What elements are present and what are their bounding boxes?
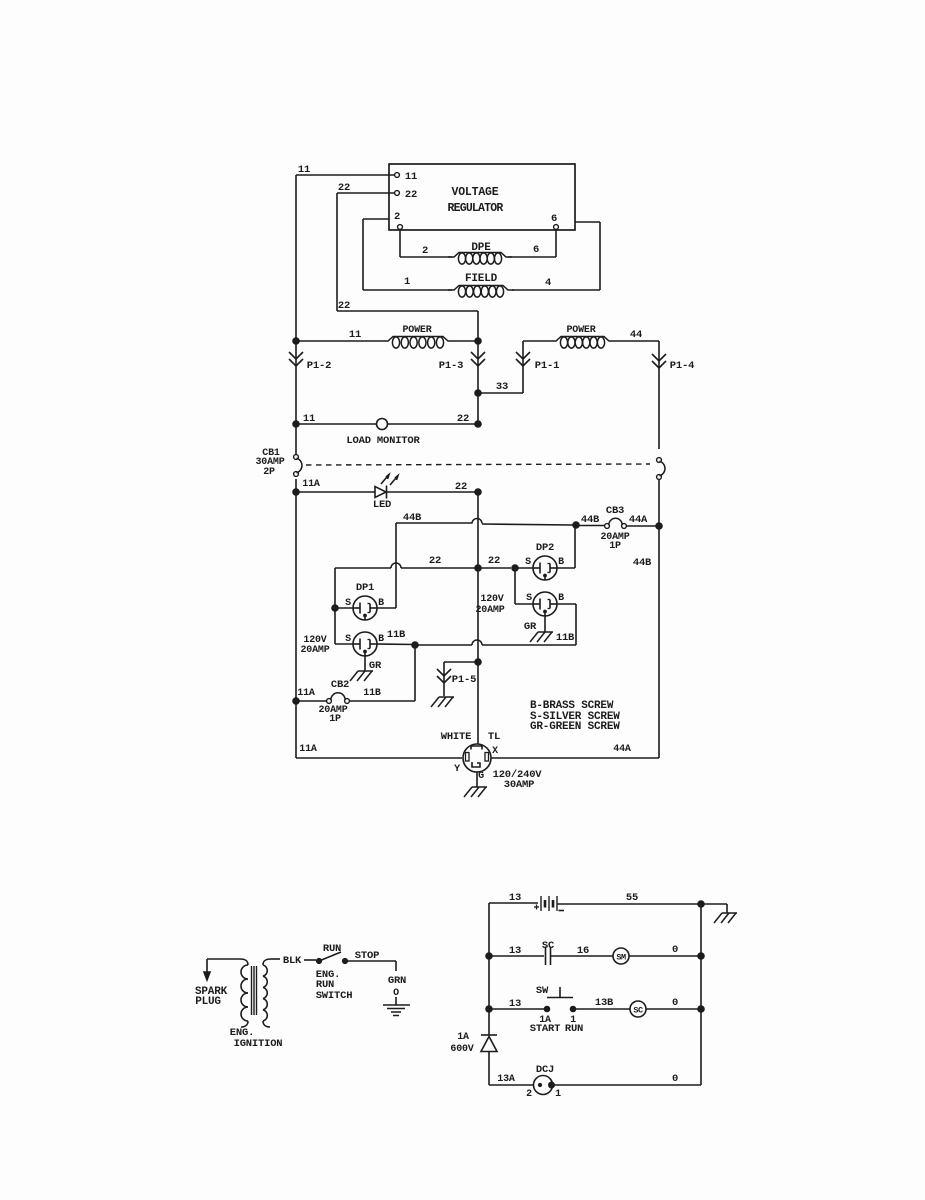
wire 22 row DP section <box>335 567 391 569</box>
engine run switch pivot <box>316 958 321 963</box>
wire 55 to right bus <box>557 903 701 905</box>
svg-text:GR: GR <box>524 621 537 633</box>
wire to spark plug <box>207 958 240 960</box>
svg-text:11B: 11B <box>387 629 406 641</box>
wire 6 from DPE to terminal 6 <box>508 256 556 258</box>
svg-text:WHITE: WHITE <box>441 731 472 743</box>
svg-text:4: 4 <box>545 277 551 289</box>
svg-text:LOAD MONITOR: LOAD MONITOR <box>346 435 420 447</box>
svg-text:11: 11 <box>303 413 315 425</box>
svg-text:11B: 11B <box>363 688 381 699</box>
svg-text:SC: SC <box>542 940 555 952</box>
svg-text:SW: SW <box>536 985 549 997</box>
node 11B junction <box>412 642 419 649</box>
wire DP2 S column <box>514 568 516 604</box>
receptacle DP1 lower <box>353 632 377 656</box>
svg-text:55: 55 <box>626 892 638 904</box>
svg-text:0: 0 <box>672 1073 678 1085</box>
battery BT1 <box>540 896 542 911</box>
terminal 2 of voltage regulator <box>398 225 403 230</box>
ground below TL <box>476 772 478 787</box>
node right bus row2 <box>698 953 705 960</box>
svg-text:IGNITION: IGNITION <box>234 1038 283 1050</box>
node battery right <box>698 901 705 908</box>
svg-text:33: 33 <box>496 381 508 393</box>
svg-text:P1-3: P1-3 <box>439 360 463 372</box>
svg-text:SC: SC <box>633 1006 643 1016</box>
svg-text:PLUG: PLUG <box>195 996 221 1008</box>
terminal 22 of voltage regulator <box>395 191 400 196</box>
svg-text:SM: SM <box>616 953 626 963</box>
svg-text:0: 0 <box>672 997 678 1009</box>
svg-text:13: 13 <box>509 945 521 957</box>
wire GRN to earth <box>395 997 397 1005</box>
connector pin P1-2 <box>289 352 303 359</box>
svg-text:0: 0 <box>672 944 678 956</box>
svg-text:6: 6 <box>551 213 557 225</box>
circuit breaker CB2 <box>296 700 327 702</box>
node CB2 left bus <box>293 698 300 705</box>
svg-text:S: S <box>345 598 351 609</box>
terminal 11 of voltage regulator <box>395 173 400 178</box>
LED D1 <box>375 487 386 498</box>
svg-text:TL: TL <box>488 731 500 743</box>
svg-text:22: 22 <box>405 189 417 201</box>
wire left bus to bottom row <box>295 492 297 758</box>
wire 22 to DP2 <box>478 567 511 569</box>
svg-text:P1-1: P1-1 <box>535 360 559 372</box>
node 44A right bus <box>656 523 663 530</box>
right bus start circuit <box>700 904 702 1085</box>
wire DP1 upper B <box>377 607 396 609</box>
earth ground GRN <box>383 1004 410 1006</box>
svg-text:11A: 11A <box>299 744 317 755</box>
wire right bus 44B down <box>658 526 660 758</box>
svg-text:22: 22 <box>457 413 469 425</box>
wire left bus CB1 to LED row <box>295 479 297 492</box>
wire DP2 upper B to 44B <box>557 567 575 569</box>
wire 33 <box>475 390 482 397</box>
spark plug arrow <box>204 972 210 980</box>
node right bus row3 <box>698 1006 705 1013</box>
svg-text:20AMP: 20AMP <box>475 605 504 616</box>
node 11A LED row <box>293 489 300 496</box>
wire DCJ to right bus <box>553 1084 702 1086</box>
svg-text:22: 22 <box>338 182 350 194</box>
svg-text:S: S <box>525 557 531 568</box>
connector pin P1-5 <box>444 661 478 663</box>
wire 44B drop to DP1 <box>395 523 397 608</box>
node 13 row3 <box>486 1006 493 1013</box>
wire S-column DP1 <box>334 568 336 644</box>
svg-text:CB3: CB3 <box>606 505 624 517</box>
svg-text:GR-GREEN SCREW: GR-GREEN SCREW <box>530 721 620 733</box>
node DP2-B on 44B wire <box>573 522 580 529</box>
svg-text:LED: LED <box>373 499 391 511</box>
svg-text:P1-4: P1-4 <box>670 360 694 372</box>
node P1-5 junction <box>475 659 482 666</box>
svg-text:P1-2: P1-2 <box>307 360 331 372</box>
svg-text:44: 44 <box>630 329 642 341</box>
receptacle DP2 upper <box>533 556 557 580</box>
node 22 center DP row <box>475 565 482 572</box>
svg-text:RUN: RUN <box>323 943 341 955</box>
wire STOP to GRN ground <box>345 960 396 962</box>
svg-text:13: 13 <box>509 998 521 1010</box>
load monitor <box>293 421 300 428</box>
node 13 row2 <box>486 953 493 960</box>
transformer T1 core <box>251 966 253 1015</box>
svg-text:1: 1 <box>404 276 410 288</box>
wire from terminal 2 to DPE <box>399 230 401 258</box>
connector pin P1-4 <box>652 354 666 361</box>
ground below P1-5 <box>439 696 454 698</box>
wire center bus to load monitor <box>477 393 479 421</box>
svg-text:13A: 13A <box>497 1074 515 1085</box>
svg-text:22: 22 <box>488 555 500 567</box>
wire SM to right bus <box>629 955 701 957</box>
wire TL to right bus 44A <box>491 757 659 759</box>
node junction dot left POWER <box>293 338 300 345</box>
svg-text:22: 22 <box>338 300 350 312</box>
svg-text:11B: 11B <box>556 632 575 644</box>
wire 13 row3 <box>489 1008 545 1010</box>
svg-text:600V: 600V <box>450 1044 473 1055</box>
svg-text:11A: 11A <box>302 479 320 490</box>
capacitor SC contact <box>545 947 547 966</box>
inductor POWER right <box>523 340 550 342</box>
circuit breaker CB1 right pole <box>657 458 662 463</box>
wire SC to right bus <box>646 1008 701 1010</box>
svg-text:13: 13 <box>509 892 521 904</box>
svg-text:13B: 13B <box>595 997 614 1009</box>
inductor DPE <box>448 253 512 258</box>
svg-text:16: 16 <box>577 945 589 957</box>
wire center bus LED row down <box>477 492 479 568</box>
terminal 6 of voltage regulator <box>554 225 559 230</box>
ground DP2 GR <box>544 616 546 632</box>
wire DP2 lower B to 11B <box>557 603 576 605</box>
svg-text:1P: 1P <box>609 541 621 552</box>
wire 22 from regulator <box>337 192 395 194</box>
bottom row 11A wire <box>296 757 462 759</box>
connector pin P1-1 <box>516 352 530 359</box>
svg-text:Y: Y <box>454 764 460 775</box>
wire 11B to DP2 <box>415 644 472 646</box>
transformer T1 left winding <box>240 959 248 965</box>
svg-text:2P: 2P <box>263 467 275 478</box>
svg-text:SWITCH: SWITCH <box>316 990 353 1002</box>
wire LED to center bus <box>387 491 479 493</box>
svg-text:P1-5: P1-5 <box>452 674 476 686</box>
wire left bus POWER to load monitor <box>295 341 297 421</box>
svg-text:GRN: GRN <box>388 975 406 987</box>
svg-text:2: 2 <box>526 1089 532 1100</box>
svg-text:POWER: POWER <box>402 325 431 336</box>
wire BLK <box>271 958 280 960</box>
svg-text:2: 2 <box>394 211 400 223</box>
svg-text:VOLTAGE: VOLTAGE <box>452 186 499 199</box>
wire 4 from regulator right edge <box>575 221 600 223</box>
svg-text:G: G <box>478 771 484 782</box>
svg-text:44A: 44A <box>613 744 631 755</box>
svg-text:B: B <box>558 557 564 568</box>
svg-text:44B: 44B <box>403 512 422 524</box>
wire 11B from DP1 <box>377 643 415 646</box>
wire 13 battery row <box>489 902 538 904</box>
voltage regulator U1 box <box>389 164 575 230</box>
wire center bus POWER to node 33 <box>477 341 479 393</box>
svg-text:30AMP: 30AMP <box>504 779 535 791</box>
wire 16 <box>551 955 614 957</box>
svg-text:6: 6 <box>533 244 539 256</box>
engine run switch stop contact <box>342 958 347 963</box>
svg-text:BLK: BLK <box>283 955 302 967</box>
transformer T1 right winding <box>263 959 271 965</box>
wire center bus to TL <box>477 662 479 744</box>
wire 44B horizontal <box>396 522 472 524</box>
receptacle TL twist-lock <box>463 744 491 772</box>
engine run switch blade <box>319 952 341 961</box>
receptacle DP2 lower <box>533 592 557 616</box>
svg-text:20AMP: 20AMP <box>300 645 329 656</box>
svg-text:1P: 1P <box>329 714 341 725</box>
node junction dot right POWER <box>475 338 482 345</box>
wire to chassis ground <box>701 903 727 905</box>
start contactor coil SC <box>630 1001 646 1017</box>
svg-text:DCJ: DCJ <box>536 1064 554 1076</box>
svg-text:CB2: CB2 <box>331 679 349 691</box>
connector pin P1-3 <box>471 352 485 359</box>
starter motor SM <box>613 948 629 964</box>
diode CR1 <box>481 1034 497 1036</box>
svg-text:DPE: DPE <box>471 242 491 254</box>
svg-text:RUN: RUN <box>565 1023 583 1035</box>
circuit breaker CB1 left pole <box>295 424 297 455</box>
svg-text:DP1: DP1 <box>356 582 374 594</box>
svg-text:GR: GR <box>369 660 382 672</box>
wire diode to DCJ row <box>488 1051 490 1085</box>
svg-text:B: B <box>558 593 564 604</box>
wire 13A <box>489 1084 534 1086</box>
ground DP1 GR <box>364 656 366 671</box>
svg-text:START: START <box>530 1023 561 1035</box>
left bus start circuit <box>488 903 490 1035</box>
wire center bus to P1-5 row <box>477 568 479 662</box>
svg-text:44A: 44A <box>629 514 648 526</box>
svg-text:FIELD: FIELD <box>465 273 498 285</box>
wire CB2 up to 11B node <box>414 645 416 701</box>
inductor FIELD <box>448 286 514 291</box>
wire 1 from FIELD to regulator <box>363 289 452 291</box>
dashed tie line CB1 <box>306 464 650 465</box>
chassis ground top right <box>722 912 737 914</box>
svg-text:22: 22 <box>429 555 441 567</box>
svg-text:2: 2 <box>422 245 428 257</box>
svg-text:22: 22 <box>455 481 467 493</box>
svg-text:1: 1 <box>555 1089 561 1100</box>
svg-text:1A: 1A <box>457 1032 469 1043</box>
svg-text:S: S <box>345 634 351 645</box>
DC jack DCJ <box>534 1076 553 1095</box>
svg-text:REGULATOR: REGULATOR <box>448 202 504 215</box>
wire 22 horizontal run <box>337 310 478 312</box>
svg-text:POWER: POWER <box>566 325 595 336</box>
svg-text:11: 11 <box>298 164 310 176</box>
svg-text:11: 11 <box>349 329 361 341</box>
svg-text:44B: 44B <box>633 557 652 569</box>
wire 13 row2 <box>489 955 544 957</box>
svg-text:X: X <box>492 746 498 757</box>
svg-text:11A: 11A <box>297 688 315 699</box>
wire 13B <box>573 1008 630 1010</box>
svg-text:DP2: DP2 <box>536 542 554 554</box>
svg-text:S: S <box>526 593 532 604</box>
circuit breaker CB3 <box>578 525 605 527</box>
receptacle DP1 upper <box>353 596 377 620</box>
svg-text:11: 11 <box>405 171 417 183</box>
svg-text:120V: 120V <box>480 594 503 605</box>
wire to LED <box>296 491 375 493</box>
inductor POWER left <box>296 340 382 342</box>
svg-text:44B: 44B <box>581 514 600 526</box>
wire 11 from regulator to node A <box>296 174 395 176</box>
